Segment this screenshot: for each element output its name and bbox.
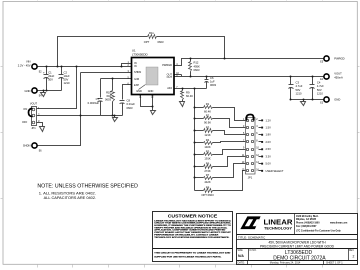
svg-text:60.4K: 60.4K (186, 94, 193, 98)
svg-text:IN: IN (134, 64, 137, 68)
svg-text:2.5V: 2.5V (266, 147, 272, 151)
svg-text:C7: C7 (96, 97, 100, 101)
svg-text:50V: 50V (48, 78, 53, 82)
svg-text:R3: R3 (206, 126, 210, 130)
svg-text:0603: 0603 (158, 40, 164, 44)
svg-text:SHEET 1 OF 1: SHEET 1 OF 1 (326, 262, 343, 265)
svg-text:0603: 0603 (194, 68, 200, 72)
svg-text:0603: 0603 (210, 83, 216, 87)
svg-text:C1: C1 (48, 70, 52, 74)
svg-text:Milpitas, CA 95035: Milpitas, CA 95035 (296, 218, 317, 221)
svg-text:R12: R12 (194, 61, 199, 65)
svg-text:22uF: 22uF (48, 74, 54, 78)
svg-text:0603: 0603 (127, 106, 133, 110)
svg-text:ADJ: ADJ (167, 86, 173, 90)
svg-text:140K: 140K (204, 145, 210, 149)
svg-text:N/A: N/A (238, 254, 244, 258)
svg-text:191K: 191K (204, 157, 210, 161)
svg-text:OFF: OFF (22, 120, 28, 124)
svg-text:R5: R5 (206, 149, 210, 153)
svg-text:1. ALL RESISTORS ARE 0402.: 1. ALL RESISTORS ARE 0402. (39, 191, 96, 195)
svg-text:OUT: OUT (167, 75, 173, 79)
svg-text:2: 2 (353, 255, 355, 259)
svg-text:0.0033uF: 0.0033uF (88, 101, 100, 105)
svg-text:R6: R6 (206, 162, 210, 166)
svg-text:2.2V - 45V: 2.2V - 45V (18, 64, 31, 68)
svg-text:4.7uF: 4.7uF (296, 84, 303, 88)
svg-text:0.01uF: 0.01uF (127, 102, 136, 106)
svg-text:1210: 1210 (317, 91, 323, 95)
svg-text:60.4K: 60.4K (204, 110, 211, 114)
svg-text:C4: C4 (317, 81, 321, 85)
svg-text:4.7uF: 4.7uF (317, 84, 324, 88)
svg-text:OPT 0603: OPT 0603 (201, 193, 214, 197)
svg-text:5.0V: 5.0V (266, 162, 272, 166)
svg-text:3.3V: 3.3V (266, 154, 272, 158)
svg-text:10uF: 10uF (64, 74, 70, 78)
svg-text:THIS CIRCUIT IS PROPRIETARY TO: THIS CIRCUIT IS PROPRIETARY TO LINEAR TE… (154, 251, 230, 254)
svg-text:2.0V: 2.0V (266, 140, 272, 144)
svg-text:SHDN: SHDN (23, 144, 31, 148)
svg-text:REV.: REV. (349, 250, 355, 252)
svg-text:50V: 50V (296, 88, 301, 92)
svg-text:Phone: (408)432-1900: Phone: (408)432-1900 (296, 222, 320, 225)
svg-text:DATE:: DATE: (238, 262, 245, 265)
svg-text:R10: R10 (106, 90, 111, 94)
svg-text:VOUT: VOUT (30, 101, 38, 105)
svg-text:R8: R8 (206, 186, 210, 190)
svg-text:IC NO.: IC NO. (250, 250, 257, 252)
svg-text:1.5V: 1.5V (266, 126, 272, 130)
svg-text:GND: GND (136, 89, 142, 93)
svg-text:274K: 274K (204, 169, 210, 173)
svg-text:JP1: JP1 (31, 126, 36, 130)
svg-text:R9: R9 (186, 91, 190, 95)
svg-text:1630 McCarthy Blvd.: 1630 McCarthy Blvd. (296, 215, 319, 218)
svg-text:1.8V: 1.8V (266, 133, 272, 137)
svg-text:SUPPLIED FOR USE WITH LINEAR T: SUPPLIED FOR USE WITH LINEAR TECHNOLOGY … (154, 255, 221, 258)
svg-text:0603: 0603 (105, 98, 111, 102)
svg-text:C8: C8 (127, 99, 131, 103)
svg-text:R7: R7 (206, 173, 210, 177)
svg-text:121K: 121K (204, 133, 210, 137)
svg-text:50V: 50V (317, 88, 322, 92)
svg-text:DEMO CIRCUIT 2072A: DEMO CIRCUIT 2072A (273, 255, 326, 261)
svg-text:LTC Confidential-For Customer: LTC Confidential-For Customer Use Only (296, 229, 341, 232)
svg-text:604: 604 (107, 94, 112, 98)
svg-text:450mA: 450mA (334, 76, 343, 80)
svg-text:GND: GND (148, 89, 154, 93)
svg-text:50V: 50V (64, 78, 69, 82)
svg-text:TITLE: SCHEMATIC: TITLE: SCHEMATIC (238, 235, 266, 239)
svg-text:OPT: OPT (144, 40, 150, 44)
svg-text:1uF: 1uF (210, 80, 215, 84)
svg-text:C2: C2 (64, 70, 68, 74)
svg-text:PRECISION CURRENT LIMIT AND PO: PRECISION CURRENT LIMIT AND POWER GOOD (260, 244, 335, 248)
svg-text:EXP: EXP (134, 83, 139, 87)
svg-text:www.linear.com: www.linear.com (330, 223, 347, 225)
svg-text:USER SELECT: USER SELECT (266, 169, 284, 173)
svg-text:C3: C3 (296, 81, 300, 85)
svg-text:VOUT: VOUT (334, 72, 342, 76)
svg-text:PWRGD: PWRGD (334, 57, 344, 61)
svg-text:NOTE: UNLESS OTHERWISE SPECIF: NOTE: UNLESS OTHERWISE SPECIFIED (37, 183, 138, 189)
svg-text:GND: GND (25, 89, 31, 93)
svg-text:R1: R1 (206, 102, 210, 106)
svg-text:C6: C6 (210, 76, 214, 80)
svg-text:JP1: JP1 (248, 175, 253, 179)
svg-text:1.2V: 1.2V (266, 118, 272, 122)
svg-text:R2: R2 (206, 113, 210, 117)
svg-text:SHDN: SHDN (134, 70, 141, 74)
svg-text:+: + (43, 71, 45, 75)
svg-text:CUSTOMER NOTICE: CUSTOMER NOTICE (168, 213, 218, 218)
svg-text:LT3065EDD: LT3065EDD (132, 53, 148, 57)
svg-text:Fax: (408)434-0507: Fax: (408)434-0507 (296, 225, 317, 228)
svg-text:1210: 1210 (64, 81, 70, 85)
svg-text:GND: GND (334, 98, 340, 102)
svg-text:VIN: VIN (26, 60, 31, 64)
svg-text:ALL CAPACITORS ARE 0402.: ALL CAPACITORS ARE 0402. (44, 196, 97, 200)
svg-text:SIZE: SIZE (238, 250, 244, 252)
svg-text:PWRGD: PWRGD (162, 63, 172, 67)
svg-text:TECHNOLOGY: TECHNOLOGY (264, 226, 293, 230)
svg-text:R4: R4 (206, 138, 210, 142)
svg-text:TECHNOLOGY APPLICATIONS ENGINE: TECHNOLOGY APPLICATIONS ENGINEERING FOR … (154, 236, 229, 239)
svg-text:1210: 1210 (296, 91, 302, 95)
svg-text:R11: R11 (149, 31, 154, 35)
svg-text:90.9K: 90.9K (204, 121, 211, 125)
svg-text:ILIM: ILIM (134, 77, 139, 81)
svg-text:Monday, February 24, 2014: Monday, February 24, 2014 (270, 262, 301, 265)
svg-text:495K: 495K (194, 64, 200, 68)
svg-text:ON: ON (23, 107, 27, 111)
svg-text:442K: 442K (204, 180, 210, 184)
